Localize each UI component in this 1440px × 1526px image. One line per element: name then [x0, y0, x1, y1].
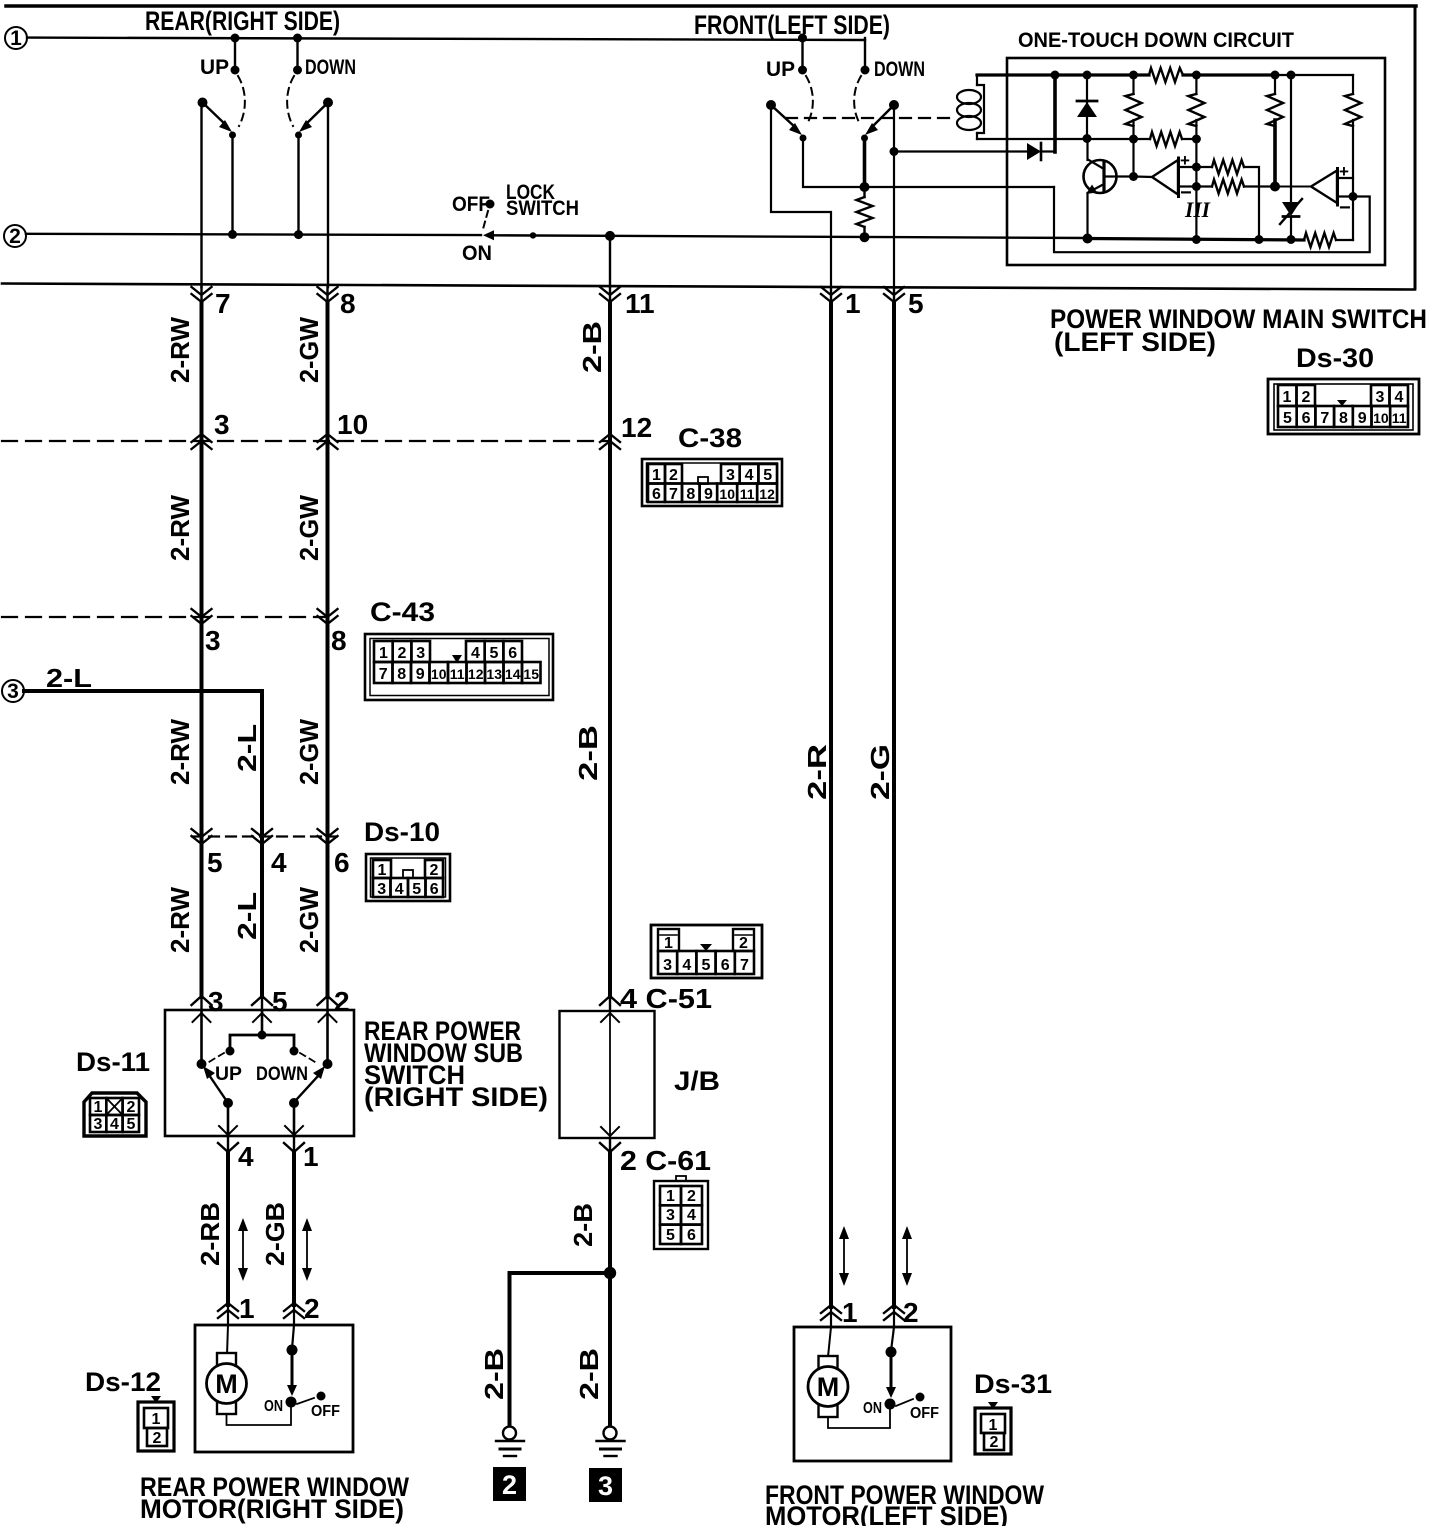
one-touch circuit outer box [1007, 58, 1385, 265]
front motor bottom loop [828, 1404, 890, 1428]
svg-text:3: 3 [205, 625, 221, 656]
sub switch common bar [226, 1031, 299, 1056]
svg-text:2-B: 2-B [568, 1203, 598, 1247]
svg-text:Ds-12: Ds-12 [85, 1367, 161, 1397]
resistor R4 vertical x=1196.4 [1188, 75, 1204, 139]
svg-text:2: 2 [990, 1434, 999, 1451]
svg-text:5: 5 [1283, 410, 1292, 427]
svg-text:8: 8 [1339, 410, 1348, 427]
svg-text:1: 1 [303, 1141, 319, 1172]
coil bottom net horizontal [977, 134, 1201, 144]
svg-text:C-43: C-43 [370, 597, 435, 627]
lock switch OFF contact dot [486, 200, 495, 209]
svg-text:6: 6 [430, 881, 439, 898]
svg-text:7: 7 [1320, 410, 1329, 427]
svg-text:12: 12 [759, 486, 775, 502]
svg-text:OFF: OFF [452, 193, 490, 216]
svg-text:5: 5 [702, 957, 711, 974]
chevron row A 2-B [600, 434, 620, 449]
rear UP dashed throw arc [238, 76, 245, 126]
svg-text:MOTOR(LEFT SIDE): MOTOR(LEFT SIDE) [765, 1501, 1008, 1526]
wire: line 2 bus left segment [26, 234, 481, 235]
chevron Ds-10 2-L [252, 829, 272, 844]
dashed connector row A [2, 440, 610, 442]
relay coil L1 [957, 75, 984, 139]
svg-text:DOWN: DOWN [874, 58, 925, 81]
svg-text:6: 6 [652, 486, 661, 503]
svg-text:UP: UP [200, 56, 229, 79]
ground marker box 3 [589, 1468, 622, 1502]
resistor R5 vertical x=1275 [1267, 75, 1283, 192]
svg-text:3: 3 [1376, 389, 1385, 406]
svg-text:5: 5 [272, 986, 288, 1017]
svg-text:1: 1 [666, 1188, 675, 1205]
svg-text:2-RW: 2-RW [165, 495, 195, 561]
wire: line 1 bus [27, 38, 865, 40]
transistor Q1 [1084, 160, 1134, 195]
resistor in front switch to line 2 [857, 187, 873, 242]
svg-text:2: 2 [669, 467, 678, 484]
svg-text:11: 11 [1392, 410, 1407, 426]
svg-text:(RIGHT SIDE): (RIGHT SIDE) [364, 1082, 548, 1112]
svg-text:5: 5 [127, 1116, 136, 1133]
wire from front DOWN pivot to pin 5 [893, 105, 895, 287]
svg-text:2-GW: 2-GW [294, 719, 324, 785]
svg-text:5: 5 [666, 1227, 675, 1244]
connector Ds-10 [366, 854, 450, 901]
svg-text:1: 1 [239, 1293, 255, 1324]
svg-text:2: 2 [398, 645, 407, 662]
chevron row B 2-RW [192, 609, 212, 624]
main switch box right edge [1414, 6, 1417, 288]
svg-text:4: 4 [682, 957, 691, 974]
svg-text:4: 4 [745, 467, 754, 484]
svg-text:Ds-11: Ds-11 [76, 1047, 150, 1077]
chevron J/B inside top [601, 1013, 619, 1022]
wire pin1 into front motor [828, 1327, 831, 1357]
svg-text:7: 7 [215, 288, 231, 319]
svg-text:6: 6 [334, 847, 350, 878]
chevrons front motor entries [821, 1305, 904, 1320]
junction dot line2 to pin 11 wire [605, 231, 615, 241]
svg-text:1: 1 [94, 1099, 103, 1116]
connector Ds-31 [975, 1402, 1011, 1454]
svg-text:5: 5 [207, 847, 223, 878]
wire 2-L horizontal from node 3 [24, 689, 262, 693]
chevron row B 2-GW [318, 609, 338, 624]
svg-text:10: 10 [431, 666, 447, 682]
svg-text:10: 10 [337, 409, 368, 440]
sub switch UP pivot and arm [197, 1059, 227, 1100]
resistor R7 on op-amp U1 + input [1196, 160, 1263, 244]
chevrons rear motor entries [218, 1303, 304, 1318]
svg-text:Ds-30: Ds-30 [1296, 343, 1374, 373]
op-amp U1 [1134, 151, 1197, 204]
top supply rail [977, 71, 1353, 80]
rear DOWN contact stub [293, 34, 302, 75]
svg-text:3: 3 [208, 986, 224, 1017]
svg-text:5: 5 [490, 645, 499, 662]
svg-text:6: 6 [721, 957, 730, 974]
svg-text:1: 1 [652, 467, 661, 484]
svg-text:7: 7 [740, 957, 749, 974]
svg-text:4: 4 [395, 881, 404, 898]
connector C-43 [365, 634, 553, 700]
dashed connector row Ds-10 [192, 835, 337, 837]
resistor R9 on bottom rail [1304, 233, 1353, 247]
svg-text:4: 4 [271, 847, 287, 878]
svg-text:8: 8 [340, 288, 356, 319]
wire from rear UP pivot down (pin 7) [200, 103, 202, 288]
rear motor bottom loop [227, 1402, 292, 1425]
svg-text:2: 2 [687, 1188, 696, 1205]
wire from front UP pivot to pin 1 [771, 105, 831, 287]
ground symbol G2 [496, 1427, 524, 1457]
wire 2-B vertical (pin11 to J/B) [609, 287, 611, 303]
rear sub switch box [165, 1010, 354, 1136]
svg-text:3: 3 [214, 409, 230, 440]
svg-text:ON: ON [264, 1398, 283, 1415]
svg-text:6: 6 [687, 1227, 696, 1244]
chevrons sub-switch exits below [218, 1143, 304, 1152]
diode D2 flyback vertical [1077, 75, 1097, 139]
svg-text:−: − [1339, 197, 1351, 219]
wire 2-B branch to ground G2 [510, 1273, 611, 1428]
chevron exit pin 11 [600, 287, 620, 302]
rear motor OFF contact [297, 1392, 326, 1405]
svg-text:2-RW: 2-RW [165, 719, 195, 785]
svg-text:C-38: C-38 [678, 423, 742, 453]
svg-text:1: 1 [379, 645, 388, 662]
svg-text:2: 2 [127, 1099, 136, 1116]
svg-text:2-GB: 2-GB [260, 1202, 290, 1266]
wire 2-L vertical [260, 691, 264, 997]
front motor OFF contact [896, 1393, 925, 1407]
chevron row A 2-RW [192, 434, 212, 449]
svg-text:1: 1 [989, 1417, 998, 1434]
feedback wire op-amp U2 minus loop [1054, 187, 1370, 252]
svg-text:2-B: 2-B [573, 725, 603, 781]
rear UP switch arm with arrowhead [198, 98, 233, 133]
front UP switch arm with arrowhead [766, 100, 802, 135]
svg-text:3: 3 [726, 467, 735, 484]
svg-text:8: 8 [331, 625, 347, 656]
svg-text:UP: UP [766, 58, 795, 81]
motion arrow front right [902, 1226, 912, 1286]
connector Ds-30 [1268, 379, 1419, 434]
svg-text:3: 3 [7, 680, 19, 703]
svg-text:2-GW: 2-GW [294, 887, 324, 953]
svg-text:SWITCH: SWITCH [506, 197, 579, 220]
svg-text:2: 2 [903, 1297, 919, 1328]
resistor R3 vertical x=1133.5 [1126, 75, 1142, 139]
rear UP arm contact to line 2 [228, 132, 237, 239]
svg-text:III: III [1184, 197, 1211, 222]
svg-text:2-GW: 2-GW [294, 495, 324, 561]
svg-text:1: 1 [842, 1297, 858, 1328]
motor M2 (front) [808, 1356, 848, 1417]
chevron J/B inside bottom [601, 1127, 619, 1136]
svg-text:4: 4 [471, 645, 480, 662]
main switch box top edge [6, 4, 1416, 8]
svg-text:2: 2 [739, 935, 748, 952]
svg-text:15: 15 [523, 666, 539, 682]
wire 2-GW vertical (pin8 to sub switch pin2) [326, 287, 328, 303]
svg-text:2-L: 2-L [232, 724, 262, 772]
svg-text:4 C-51: 4 C-51 [620, 983, 712, 1014]
lock switch dashed arm (OFF position) [483, 211, 488, 229]
diode D1 horizontal with wire from front switch [894, 143, 1055, 160]
node 3 terminal circle [2, 680, 24, 703]
front UP arm contact wire down then right [800, 135, 1055, 188]
svg-text:(LEFT SIDE): (LEFT SIDE) [1054, 327, 1216, 357]
svg-text:1: 1 [152, 1411, 161, 1428]
resistor R8 on op-amp U1 - input [1196, 180, 1275, 194]
zener diode column x=1291 [1280, 75, 1302, 244]
svg-text:5: 5 [908, 288, 924, 319]
svg-text:2: 2 [9, 225, 21, 248]
svg-text:12: 12 [621, 412, 652, 443]
svg-text:8: 8 [686, 486, 695, 503]
resistor R6 vertical x=1353 right [1345, 75, 1361, 240]
svg-text:2-R: 2-R [802, 744, 832, 800]
svg-text:13: 13 [486, 666, 502, 682]
front UP dashed throw arc [806, 76, 813, 124]
resistor R2 on coil bottom net [1150, 132, 1182, 146]
wire 2-RB vertical [227, 1136, 229, 1153]
svg-text:M: M [215, 1369, 238, 1399]
transistor emitter wire down to bottom rail [1083, 193, 1093, 244]
front DOWN switch arm with arrowhead [865, 100, 899, 135]
main switch box bottom edge [2, 284, 1415, 290]
connector Ds-11 [84, 1093, 146, 1136]
wire 2-B inside J/B [609, 1011, 611, 1138]
sub switch output contacts [223, 1098, 299, 1136]
svg-text:4: 4 [110, 1116, 119, 1133]
label REAR POWER WINDOW SUB SWITCH (RIGHT SIDE) [364, 1016, 548, 1112]
svg-text:OFF: OFF [311, 1403, 340, 1420]
wire pin 11 vertical inside box [609, 236, 611, 287]
chevrons sub-switch entries above edge [192, 996, 338, 1005]
svg-text:9: 9 [704, 486, 713, 503]
chevron exit pin 8 [318, 287, 338, 302]
wire pin1 into motor [227, 1325, 228, 1355]
svg-text:10: 10 [719, 486, 735, 502]
connector C-38 [642, 459, 782, 506]
front motor breaker wire pin2 [885, 1327, 897, 1410]
svg-text:5: 5 [763, 467, 772, 484]
svg-text:1: 1 [845, 288, 861, 319]
svg-text:2-RW: 2-RW [165, 317, 195, 383]
rear DOWN arm contact to line 2 [294, 132, 303, 240]
svg-text:REAR(RIGHT SIDE): REAR(RIGHT SIDE) [145, 6, 340, 36]
svg-text:1: 1 [10, 27, 22, 50]
sub switch DOWN pivot and arm [296, 1059, 333, 1100]
motion arrow rear right [302, 1218, 312, 1281]
junction dot 2-B ground split [604, 1267, 616, 1279]
svg-text:2-B: 2-B [577, 321, 607, 373]
svg-text:3: 3 [666, 1207, 675, 1224]
chevrons sub-switch entries inside [193, 1013, 337, 1022]
front DOWN arm contact wire down (thick) [860, 135, 870, 193]
chevron Ds-10 2-GW [318, 829, 338, 844]
svg-text:Ds-31: Ds-31 [974, 1369, 1052, 1399]
resistor R1 on top rail [1149, 68, 1183, 82]
ground marker box 2 [493, 1467, 526, 1501]
sub switch dashed arcs [206, 1053, 318, 1064]
svg-text:2: 2 [502, 1470, 517, 1500]
junction dot diode branch on pin5 wire [890, 147, 899, 156]
connector C-61 [654, 1176, 708, 1249]
svg-text:2: 2 [334, 986, 350, 1017]
svg-text:2-L: 2-L [232, 892, 262, 940]
node 2 terminal circle [4, 225, 26, 248]
relay contact feed thick vertical [1053, 75, 1057, 152]
svg-text:2: 2 [430, 862, 439, 879]
svg-text:1: 1 [378, 862, 387, 879]
connector C-51 [651, 925, 762, 978]
connector Ds-12 [138, 1396, 174, 1451]
bottom rail [1088, 239, 1305, 241]
svg-text:1: 1 [1283, 389, 1292, 406]
rear UP contact stub [231, 34, 240, 75]
svg-text:8: 8 [397, 666, 406, 683]
wire 2-B below J/B [609, 1138, 611, 1153]
svg-text:9: 9 [416, 666, 425, 683]
svg-text:7: 7 [669, 486, 678, 503]
svg-text:5: 5 [412, 881, 421, 898]
svg-text:3: 3 [598, 1471, 613, 1501]
svg-text:3: 3 [663, 957, 672, 974]
chevron J/B exit below [600, 1143, 620, 1152]
svg-text:11: 11 [625, 288, 655, 319]
svg-text:2-GW: 2-GW [294, 317, 324, 383]
svg-text:MOTOR(RIGHT SIDE): MOTOR(RIGHT SIDE) [140, 1494, 404, 1524]
svg-text:3: 3 [416, 645, 425, 662]
chevron Ds-10 2-RW [192, 829, 212, 844]
svg-text:2-B: 2-B [574, 1348, 604, 1400]
wire 2-G vertical [893, 287, 895, 303]
front DOWN contact stub (line1 corner) [861, 38, 870, 75]
wire op-amp U2 output to node [1275, 186, 1311, 188]
mechanical link dashed line to relay coil [786, 117, 955, 119]
wire 2-GB vertical [293, 1136, 295, 1153]
svg-text:11: 11 [450, 666, 465, 682]
svg-text:2-B: 2-B [479, 1348, 509, 1400]
front UP contact stub [798, 34, 807, 75]
lock switch pivot dot [530, 232, 536, 238]
svg-text:J/B: J/B [674, 1066, 720, 1096]
motion arrow front left [839, 1226, 849, 1286]
wire 2-RW vertical (pin7 to sub switch pin3) [200, 287, 202, 303]
svg-text:2: 2 [153, 1430, 162, 1447]
svg-text:3: 3 [94, 1116, 103, 1133]
svg-text:M: M [817, 1372, 840, 1402]
rear DOWN switch arm with arrowhead [299, 98, 333, 133]
svg-text:2-L: 2-L [46, 663, 92, 693]
svg-text:Ds-10: Ds-10 [364, 817, 440, 847]
svg-text:2: 2 [304, 1293, 320, 1324]
wire R3 junction down to op-amp output node [1129, 139, 1138, 181]
wire 2-R vertical [830, 287, 832, 303]
wire: line 2 bus right segment [492, 235, 1087, 238]
junction block J/B box [560, 1011, 655, 1138]
dashed connector row B [2, 616, 328, 618]
svg-text:UP: UP [215, 1064, 242, 1085]
svg-text:4: 4 [1395, 389, 1404, 406]
svg-text:11: 11 [740, 486, 755, 502]
svg-text:ON: ON [462, 242, 492, 265]
chevron exit pin 1 (front) [821, 287, 841, 302]
svg-text:10: 10 [1373, 410, 1389, 426]
chevrons sub-switch exits inside [219, 1126, 303, 1135]
front motor box [794, 1327, 951, 1461]
wire R4 column down to bottom rail [1192, 139, 1201, 244]
motor M1 (rear) [207, 1353, 247, 1414]
chevron exit pin 7 [192, 287, 212, 302]
svg-text:4: 4 [687, 1207, 696, 1224]
motion arrow rear left [238, 1218, 248, 1281]
svg-text:14: 14 [505, 666, 521, 682]
svg-text:6: 6 [1302, 410, 1311, 427]
svg-text:FRONT(LEFT SIDE): FRONT(LEFT SIDE) [694, 10, 890, 40]
chevron exit pin 5 (front) [884, 287, 904, 302]
svg-text:12: 12 [468, 666, 484, 682]
transistor collector wire up [1086, 139, 1088, 161]
lock switch arrow contact on line 2 [483, 230, 494, 240]
rear motor breaker wire pin2 [286, 1325, 298, 1408]
svg-text:2-RW: 2-RW [165, 887, 195, 953]
svg-text:DOWN: DOWN [305, 56, 356, 79]
svg-text:ON: ON [863, 1400, 882, 1417]
svg-text:2: 2 [1302, 389, 1311, 406]
ground symbol G3 [597, 1427, 625, 1457]
node 1 terminal circle [5, 27, 27, 50]
svg-text:2 C-61: 2 C-61 [620, 1145, 711, 1176]
rear DOWN dashed throw arc [287, 76, 294, 126]
svg-text:2-G: 2-G [865, 744, 895, 800]
svg-text:OFF: OFF [910, 1405, 939, 1422]
svg-text:7: 7 [379, 666, 388, 683]
svg-text:9: 9 [1358, 410, 1367, 427]
svg-text:1: 1 [664, 935, 673, 952]
svg-text:6: 6 [508, 645, 517, 662]
wire from rear DOWN pivot down (pin 8) [327, 103, 329, 288]
chevron J/B entry above [600, 996, 620, 1005]
svg-text:DOWN: DOWN [256, 1064, 308, 1085]
svg-text:4: 4 [238, 1141, 254, 1172]
svg-text:ONE-TOUCH DOWN CIRCUIT: ONE-TOUCH DOWN CIRCUIT [1018, 29, 1294, 52]
front DOWN dashed throw arc [854, 76, 861, 124]
sub switch internal wires from pins [202, 1011, 328, 1063]
svg-text:3: 3 [377, 881, 386, 898]
rear motor box [195, 1325, 353, 1452]
op-amp U2 [1311, 162, 1353, 219]
chevron row A 2-GW [318, 434, 338, 449]
svg-text:2-RB: 2-RB [195, 1202, 225, 1266]
